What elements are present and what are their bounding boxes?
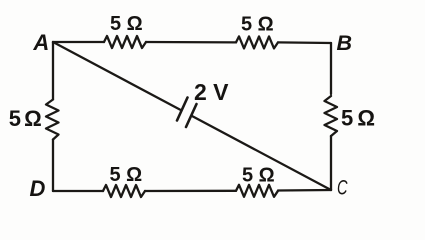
svg-text:5 Ω: 5 Ω (241, 14, 274, 36)
wire diagonal battery to C (192, 116, 331, 190)
resistor R-BC 5Ω right side (325, 96, 338, 136)
wire right R-BC down to C (330, 136, 332, 190)
svg-text:5 Ω: 5 Ω (242, 165, 275, 187)
svg-text:D: D (30, 176, 46, 201)
svg-text:B: B (337, 31, 353, 55)
wire bottom-left D to R3 (53, 190, 103, 192)
battery cell 2V plate right (186, 104, 197, 127)
wire right B down to R-BC (330, 43, 332, 94)
resistor R-AD 5Ω left side (46, 100, 59, 140)
svg-text:5 Ω: 5 Ω (341, 106, 374, 131)
svg-text:2 V: 2 V (194, 79, 229, 105)
svg-text:5 Ω: 5 Ω (110, 164, 143, 186)
svg-text:5 Ω: 5 Ω (110, 13, 143, 35)
wire top-left A to R1 (53, 41, 104, 43)
svg-text:A: A (32, 30, 49, 55)
resistor R-DC2 5Ω bottom-right (236, 185, 278, 197)
wire diagonal A to battery (53, 42, 180, 110)
wire left A down to R-AD (52, 42, 54, 99)
resistor R-AB2 5Ω top-right (236, 36, 278, 48)
svg-text:C: C (337, 176, 348, 200)
resistor R-DC1 5Ω bottom-left (103, 185, 145, 197)
wire bottom-right C to R4 (278, 189, 331, 192)
wire top-middle R1 to R2 (146, 41, 236, 44)
wire top-right R2 to B (278, 41, 331, 44)
wire bottom-middle (145, 190, 236, 192)
battery cell 2V plate left (177, 98, 188, 121)
svg-text:5 Ω: 5 Ω (9, 106, 41, 131)
wire left R-AD down to D (52, 140, 54, 192)
resistor R-AB1 5Ω top-left (104, 36, 146, 48)
